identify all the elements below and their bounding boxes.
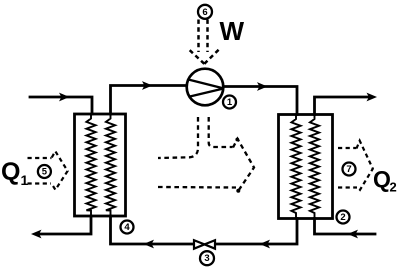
node 3 (expansion valve) — [200, 251, 214, 265]
node 5 (Q1 arrow) — [38, 165, 51, 178]
svg-text:Q: Q — [1, 158, 20, 186]
coil: evaporator external side — [86, 114, 95, 216]
wire: condenser external outlet (top right) — [315, 97, 372, 115]
coil: evaporator refrigerant side — [106, 114, 115, 216]
node 4 (evaporator outlet) — [121, 221, 134, 234]
wire: external inlet to evaporator (top left) — [30, 97, 92, 114]
svg-text:2: 2 — [390, 180, 397, 195]
svg-text:5: 5 — [42, 167, 48, 178]
flow arrow liquid line left of valve — [144, 240, 155, 249]
node 6 (work input) — [198, 5, 212, 19]
wire: external outlet from evaporator (bottom left) — [36, 216, 91, 234]
svg-text:6: 6 — [202, 7, 207, 18]
svg-text:1: 1 — [227, 97, 233, 108]
junction dot lower head corner — [236, 189, 240, 193]
flow arrow condenser external outlet — [367, 93, 378, 102]
flow arrow evaporator external outlet — [31, 230, 42, 239]
svg-text:Q: Q — [373, 166, 391, 192]
dashed energy-flow arrow from compressor (vertical pair) — [158, 117, 254, 191]
node 7 (Q2 arrow) — [343, 163, 356, 176]
wire: evaporator to compressor suction line — [111, 86, 188, 115]
svg-text:4: 4 — [124, 222, 130, 233]
node 2 (condenser) — [337, 211, 350, 224]
flow arrow liquid line right of valve — [260, 240, 271, 249]
dashed heat input arrow Q1 — [28, 151, 68, 190]
dashed energy-flow lower edge from left — [158, 186, 236, 189]
wire: compressor discharge to condenser — [223, 87, 298, 115]
flow arrow on discharge line — [257, 82, 268, 91]
flow arrow condenser external inlet — [348, 230, 359, 239]
svg-text:1: 1 — [21, 172, 29, 188]
flow arrow on evaporator inlet — [59, 93, 70, 102]
dashed energy-flow arrow head (central big arrow) — [233, 139, 254, 191]
coil: condenser refrigerant side — [291, 115, 300, 219]
svg-text:W: W — [220, 16, 245, 46]
wire: liquid line right segment (condenser to valve) — [216, 219, 298, 245]
wire: condenser external inlet (bottom right) — [315, 219, 376, 235]
heat exchanger box E2 (condenser) — [279, 115, 333, 219]
dashed work input arrow W (double line) — [190, 20, 219, 64]
wire: liquid line left segment (valve to evaporator) — [111, 216, 194, 244]
compressor U1 — [187, 69, 224, 106]
expansion valve V1 — [194, 240, 215, 249]
junction dot upper head corner — [235, 138, 239, 142]
heat exchanger box E1 (evaporator) — [75, 114, 126, 216]
coil: condenser external side — [310, 115, 319, 219]
dashed heat output arrow Q2 — [338, 141, 373, 190]
svg-text:2: 2 — [340, 212, 345, 223]
flow arrow on suction line — [142, 81, 153, 90]
svg-text:7: 7 — [346, 164, 351, 175]
node 1 (compressor) — [223, 96, 236, 109]
svg-text:3: 3 — [204, 253, 209, 264]
